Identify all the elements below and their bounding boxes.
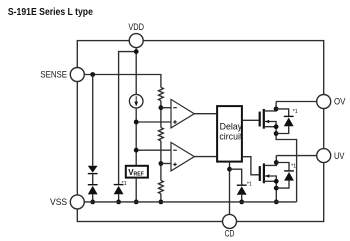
junction dot comp2 minus (134, 148, 139, 153)
wire Q1 drain to OV (276, 101, 317, 103)
svg-text:SENSE: SENSE (40, 70, 67, 80)
junction dot VREF rail (134, 200, 139, 205)
svg-text:*1: *1 (122, 181, 127, 187)
pin OV (317, 95, 331, 109)
pin CD (223, 214, 237, 228)
resistor R1 (159, 87, 164, 100)
wire comparator2 minus input (136, 149, 171, 151)
resistor R2 (159, 128, 164, 141)
resistor R3 (159, 181, 164, 194)
VREF box U3 (126, 166, 148, 178)
pin VSS (70, 195, 84, 209)
delay circuit box U4 (217, 106, 242, 162)
svg-text:*1: *1 (247, 182, 252, 188)
wire current source output down to VREF (135, 108, 137, 166)
wire Q2 drain to UV (276, 155, 316, 157)
wire CD branch to diode D6 (230, 169, 242, 185)
diode D5 *1 across Q2 (276, 163, 294, 189)
wire comp2 output (194, 156, 217, 158)
svg-text:S-191E Series L type: S-191E Series L type (8, 7, 93, 18)
diode D6 *1 on CD (237, 185, 247, 202)
junction dot R3 rail (159, 200, 164, 205)
current source I1 (129, 94, 143, 108)
svg-text:OV: OV (334, 97, 345, 107)
wire R2 to R3 (160, 141, 162, 181)
svg-text:*1: *1 (291, 164, 296, 170)
wire R3 to rail (160, 194, 162, 202)
wire between clamp diodes (92, 174, 94, 185)
wire comp1 output (194, 113, 217, 115)
diode D2 (up) of clamp stack (88, 185, 98, 202)
svg-text:Delay: Delay (220, 121, 243, 131)
wire comp1 minus input (161, 107, 171, 109)
pin UV (317, 149, 331, 163)
wire comp2 plus input (161, 163, 171, 165)
junction dot below VDD (134, 49, 139, 54)
wire delay to UV gate (242, 157, 259, 175)
junction dot CD branch (227, 167, 232, 172)
junction dot comp1 plus (134, 120, 139, 125)
IC boundary box (77, 41, 323, 222)
wire delay to OV gate (242, 119, 259, 121)
junction dot tap2 (159, 161, 164, 166)
junction dot SENSE branch (90, 72, 95, 77)
junction dot Q1 drain (274, 107, 279, 112)
junction dot Q2 diode anode (274, 186, 279, 191)
junction dot Q2 rail (274, 200, 279, 205)
junction dot Q1 source (274, 124, 279, 129)
wire comparator1 plus input (136, 121, 171, 123)
transistor Q1 (OV output NMOS) (260, 102, 297, 202)
wire SENSE protection column (92, 75, 94, 166)
transistor Q2 (UV output NMOS) (260, 156, 277, 202)
pin SENSE (70, 68, 84, 82)
svg-text:CD: CD (225, 229, 235, 239)
wire VREF to VSS rail (135, 178, 137, 202)
svg-text:*1: *1 (293, 109, 298, 115)
wire delay bottom to CD (229, 162, 231, 215)
diode D3 *1 near VSS (114, 185, 124, 202)
wire SENSE line to resistor chain (84, 75, 161, 88)
junction dot Q2 source (274, 179, 279, 184)
wire R1 to R2 (160, 101, 162, 128)
wire VDD stem (135, 48, 137, 95)
wire VSS rail (84, 201, 296, 203)
svg-text:circuit: circuit (219, 132, 243, 142)
junction dot D3 rail (116, 200, 121, 205)
pin VDD (129, 34, 143, 48)
comparator U1 (171, 99, 194, 128)
junction dot Q2 drain (274, 160, 279, 165)
wire VDD branch left to diode column (119, 52, 137, 185)
junction dot tap1 (159, 105, 164, 110)
svg-text:VDD: VDD (128, 22, 144, 32)
junction dot stack to rail (90, 200, 95, 205)
svg-text:UV: UV (334, 151, 344, 161)
comparator U2 (171, 142, 194, 171)
diode D4 *1 across Q1 (276, 109, 294, 134)
junction dot D6 rail (239, 200, 244, 205)
junction dot Q1 diode anode (274, 131, 279, 136)
diode D1 (down) of clamp stack (88, 166, 98, 174)
svg-text:VSS: VSS (50, 197, 67, 207)
